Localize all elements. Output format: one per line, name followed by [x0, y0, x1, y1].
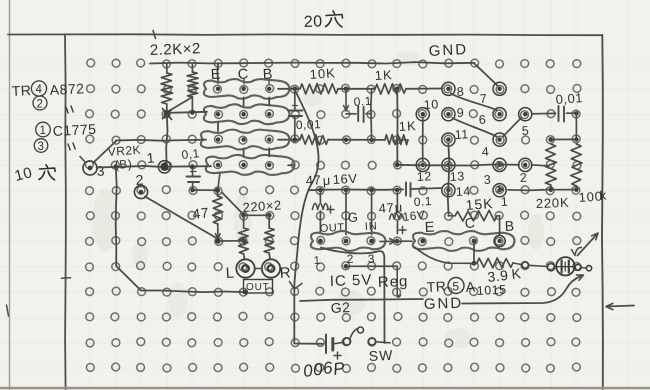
wire row6 pin1 to col19-20	[508, 189, 548, 192]
link col8 row4-row5	[268, 148, 270, 156]
plus sign 47u #2	[399, 227, 406, 234]
paper bottom edge line	[0, 387, 650, 389]
svg-text:3: 3	[96, 162, 105, 179]
IC pin 13 circled hole	[442, 158, 455, 171]
IC pin 12 circled hole	[416, 158, 429, 171]
junction col20 row4	[574, 137, 578, 141]
junction col6 row5b	[216, 163, 220, 167]
svg-text:1: 1	[500, 195, 508, 209]
svg-text:TR: TR	[11, 82, 31, 99]
junction col5 row5	[190, 164, 195, 169]
junction col14 row8	[420, 239, 425, 244]
svg-text:2.2K×2: 2.2K×2	[150, 40, 202, 59]
IC pin 3 circled hole	[493, 158, 506, 171]
link col6 row3-row4	[217, 123, 219, 131]
IC pin 5 circled hole	[519, 108, 532, 121]
svg-text:220×2: 220×2	[242, 197, 282, 215]
IC pin 11 circled hole	[442, 133, 455, 146]
svg-text:μ: μ	[322, 173, 331, 188]
capacitor 0.1 row6 plates	[405, 183, 407, 196]
wire blob row5 to col9	[288, 164, 294, 166]
svg-text:C1775: C1775	[52, 121, 97, 139]
arrow inside pin3	[497, 162, 503, 167]
check mark above jack	[572, 247, 582, 255]
svg-text:1K: 1K	[374, 67, 393, 83]
arrowhead GND to jack	[577, 275, 584, 280]
capacitor 0.1 col5 plates	[187, 176, 201, 178]
capacitor 0.1 row3 plates	[357, 107, 359, 122]
wire OUT box to row10	[245, 291, 248, 294]
wire col2 row5-row9	[116, 167, 117, 267]
wire 10K to 1K row2	[338, 88, 375, 90]
ditto mark 2	[68, 143, 75, 150]
VR pin2 circled hole	[134, 185, 147, 198]
junction col12 row8	[369, 239, 374, 244]
junction col9 row4	[293, 137, 298, 142]
perfboard hole grid 20x13	[85, 59, 580, 372]
end terminal circle	[586, 266, 591, 271]
svg-text:10: 10	[423, 97, 439, 112]
svg-text:12: 12	[416, 169, 432, 184]
board right edge line	[601, 35, 604, 390]
solder blob row8 regulator cols10-12	[311, 231, 386, 251]
junction col19 row4	[548, 137, 553, 142]
junction col6 row4b	[216, 137, 220, 141]
wire col13 row2-row5	[396, 89, 398, 165]
wire row1 to pin7 diagonal	[474, 63, 498, 85]
fork top of battery wire	[290, 282, 303, 290]
IC pin 7 circled hole	[493, 82, 506, 95]
junction col8 row7	[267, 213, 272, 218]
junction col7 row4b	[241, 137, 245, 141]
capacitor 0.01 col9 lead lower	[294, 117, 296, 139]
svg-text:3.9: 3.9	[487, 267, 510, 285]
wire col6 row6 diag to col7 row7	[222, 193, 242, 214]
svg-text:R: R	[279, 264, 291, 282]
capacitor 0.1 col5 lead lower	[192, 183, 194, 190]
svg-text:IC 5V: IC 5V	[330, 272, 373, 290]
capacitor 0.01 col9 lead upper	[294, 90, 296, 109]
junction col20 row6	[574, 187, 579, 192]
svg-text:0.1: 0.1	[413, 194, 432, 209]
junction col11 row9	[344, 264, 349, 269]
wire row1 drop to E column	[216, 64, 219, 81]
svg-text:5: 5	[521, 124, 529, 138]
capacitor 0.1 col5 lead upper	[191, 168, 193, 176]
wire regblob to col13 with arrow	[380, 240, 393, 242]
svg-text:SW: SW	[368, 347, 393, 364]
tick on left edge	[62, 277, 71, 279]
ditto mark	[66, 106, 73, 113]
wire battery minus vertical	[294, 288, 322, 344]
svg-text:1: 1	[314, 255, 321, 267]
wire into jack	[555, 266, 557, 268]
junction col13 row5	[395, 162, 400, 167]
junction col8 row2	[267, 87, 271, 91]
svg-text:3: 3	[483, 173, 491, 187]
wire col5 row6 to col6	[194, 189, 215, 191]
plus sign battery	[334, 352, 341, 359]
wire col2-col3 diagonal	[116, 266, 141, 291]
board left edge line	[64, 35, 67, 390]
junction col7 row8	[241, 238, 246, 243]
svg-text:11: 11	[454, 127, 469, 142]
capacitor 0.1 row3 leads	[346, 113, 356, 115]
capacitor 47u #2 col13	[396, 191, 398, 213]
svg-text:47: 47	[192, 204, 210, 222]
solder blob row5 cols6-8	[206, 155, 295, 175]
wire GND rail bottom right	[462, 276, 581, 304]
capacitor 0.01 right plates	[558, 106, 560, 121]
IC pin 6 circled hole	[493, 108, 506, 121]
wire C pin to row9	[473, 244, 475, 263]
svg-text:16V: 16V	[332, 171, 357, 187]
IC pin 4 circled hole	[493, 133, 506, 146]
junction col6 row8	[215, 238, 221, 244]
wire row5 VR3 to pin1	[97, 166, 161, 168]
junction col7 row5b	[241, 163, 245, 167]
capacitor 0.01 right leads	[532, 112, 556, 114]
wire row5 pin1 to blob	[169, 165, 211, 167]
svg-text:1015: 1015	[476, 282, 507, 298]
svg-text:TR: TR	[426, 278, 446, 295]
svg-text:4: 4	[481, 145, 489, 159]
solder blob row2 cols6-8	[204, 79, 290, 99]
switch pole hole col11	[343, 338, 350, 345]
wire col4 row3 to row5	[166, 114, 167, 164]
wire row6 rail	[309, 188, 404, 191]
svg-text:0,1: 0,1	[181, 146, 201, 162]
svg-text:1K: 1K	[398, 118, 417, 134]
wire blob row4 to col9	[278, 139, 300, 141]
arrow to upper right	[578, 234, 598, 256]
wire GND rail bottom left	[300, 299, 423, 301]
svg-text:B: B	[504, 218, 515, 234]
svg-text:G2: G2	[330, 299, 350, 316]
paper smudges	[92, 51, 544, 348]
resistor 10K row2	[300, 84, 338, 95]
svg-text:47: 47	[305, 172, 321, 188]
wire 1K to pin8	[406, 88, 442, 90]
wire pin2 to 220K	[532, 165, 550, 166]
wire power rail curve col9	[294, 90, 318, 288]
label C1775 with circled 1	[36, 121, 97, 139]
junction X col4 row3	[162, 108, 172, 120]
junction col9 row2	[293, 87, 298, 92]
junction col8 row4b	[267, 137, 271, 141]
wire pin9 to pin4 diagonal	[453, 118, 497, 137]
wire VR2 diagonal to col6 row8	[145, 197, 216, 238]
jack R	[262, 259, 280, 277]
svg-text:E: E	[424, 219, 435, 236]
resistor 47 col6	[217, 192, 219, 196]
battery 006P plates	[325, 335, 327, 354]
VR pin3 circled hole	[83, 161, 97, 175]
junction col2 row5	[114, 164, 118, 168]
junction col7 row2	[241, 87, 245, 91]
svg-text:0.1: 0.1	[353, 94, 372, 109]
wire col12 row6-row8	[371, 191, 373, 235]
junction col10 row8	[318, 239, 323, 244]
wire col18-col19 row9	[529, 265, 548, 266]
svg-text:Reg: Reg	[378, 273, 409, 291]
plus sign 47u #1	[327, 206, 334, 213]
wire blob row2 to col9	[278, 88, 300, 90]
switch throw hole col12	[368, 338, 375, 345]
junction col11 row8	[344, 239, 349, 244]
solder blob row4 cols6-8	[201, 130, 290, 150]
svg-text:6: 6	[478, 113, 486, 127]
IC pin 9 circled hole	[442, 108, 455, 121]
resistor 220 left col7	[243, 215, 245, 228]
wire row4 left col2-col6	[116, 140, 206, 141]
wire 15K to B pin	[499, 216, 501, 235]
IC pin 1 circled hole	[493, 184, 506, 197]
arrowhead 47 bottom	[215, 234, 220, 240]
small mark left margin	[7, 305, 9, 316]
wire 0.1 row6 to pin14	[412, 188, 443, 189]
wire col6 row6 up to blob row5	[218, 173, 220, 189]
junction col11 row6	[344, 188, 349, 193]
junction col16 row9	[472, 261, 477, 266]
jack L	[236, 259, 254, 277]
junction col19 row6	[549, 187, 554, 192]
junction col11 row4	[344, 138, 348, 142]
circled 2 annotation	[33, 96, 47, 111]
junction col11 row2	[344, 87, 349, 92]
junction col7 row3	[241, 112, 245, 116]
wire jack to col20	[574, 266, 577, 268]
svg-text:4: 4	[36, 84, 43, 96]
svg-text:10K: 10K	[309, 65, 336, 82]
wire col6-col7 row8	[220, 240, 244, 242]
wire col15 row4-row7	[448, 144, 450, 216]
svg-text:(B): (B)	[114, 157, 132, 172]
wire regulator to switch vertical	[321, 248, 385, 344]
resistor 15K row7	[448, 215, 455, 217]
junction col13 row2	[395, 87, 400, 92]
solder blob row3 cols6-8	[204, 104, 290, 124]
wire L-R jacks	[255, 268, 262, 270]
resistor 100K col20	[571, 144, 582, 186]
output jack	[556, 257, 574, 275]
wire col13 to E blob row8	[397, 240, 412, 242]
pen tick on top edge	[153, 31, 156, 39]
link col7 row4-row5	[243, 148, 245, 156]
wire GND rail row1	[150, 62, 474, 63]
svg-text:k: k	[599, 188, 607, 203]
svg-text:L: L	[225, 265, 235, 282]
link col7 row2-row3	[243, 98, 245, 106]
hole col19 row9 contact	[547, 264, 554, 271]
resistor 2.2K #1 vertical col4	[166, 64, 168, 74]
resistor row4 unlabelled	[300, 135, 328, 146]
arrow inside pin1	[497, 187, 503, 192]
wire row10 col3-col7	[141, 291, 246, 293]
switch lever arc	[350, 329, 358, 339]
svg-text:OUT: OUT	[246, 282, 270, 293]
wire 2.2K#2 diagonal to col4 junction	[168, 98, 192, 112]
resistor 1K row4	[385, 135, 408, 145]
junction col6 row2	[216, 87, 220, 91]
svg-text:1: 1	[40, 125, 47, 137]
svg-text:2: 2	[519, 171, 527, 185]
svg-text:A: A	[465, 278, 476, 295]
svg-text:13: 13	[449, 169, 465, 184]
switch lever contact	[358, 327, 364, 333]
junction col10 row6	[318, 188, 323, 193]
svg-text:G: G	[347, 209, 358, 225]
wire VR3 to row4 diagonal	[94, 142, 116, 163]
resistor 3.9K row9	[474, 262, 477, 264]
svg-text:3: 3	[38, 141, 45, 153]
wire col20 row3-row4	[575, 114, 577, 139]
junction col7 row7	[241, 213, 246, 218]
circled 3 annotation	[34, 139, 48, 153]
hole col18 row9 contact	[522, 262, 528, 268]
junction col6 row3	[216, 112, 220, 116]
wire col12 row2-row4	[370, 89, 373, 140]
wire col11 row6-row8	[345, 191, 347, 235]
junction col20 row3	[574, 111, 579, 116]
wire row3 col4-col6	[169, 112, 207, 113]
solder blob row8 TR5 cols14-17	[413, 231, 515, 251]
VR pin1 junction blob	[160, 163, 168, 171]
hole col20 row9 contact	[575, 264, 581, 270]
arrowhead col11 row3	[344, 106, 349, 112]
board top edge line	[8, 33, 602, 36]
svg-text:A872: A872	[49, 80, 84, 98]
wire row4 col19-col20	[551, 138, 577, 140]
wire col14 row3-row5	[422, 118, 424, 161]
wire col11 row2 to row3	[345, 90, 347, 108]
svg-text:GND: GND	[424, 295, 464, 313]
junction col6 row6	[215, 188, 220, 193]
svg-text:20: 20	[304, 13, 323, 31]
notebook margin line	[9, 0, 11, 390]
label TR4 A872	[11, 80, 84, 99]
IC pin 2 circled hole	[519, 158, 532, 171]
svg-text:K: K	[511, 265, 523, 282]
svg-text:2: 2	[37, 99, 44, 111]
wire battery to sw hole	[334, 343, 343, 344]
OUT box	[244, 280, 273, 294]
wire col13 row9 drop	[397, 266, 400, 297]
junction col12 row6	[369, 188, 374, 193]
wire pin8 to pin6 diagonal	[451, 94, 497, 111]
capacitor 0.01 col9 plates	[288, 110, 303, 112]
pin B circled hole row8	[494, 235, 505, 246]
arrow pointing left outside	[607, 306, 634, 307]
svg-text:5: 5	[452, 280, 459, 294]
resistor 1K row2	[375, 84, 406, 95]
junction col13 row6	[395, 188, 400, 193]
IC pin 8 circled hole	[442, 82, 455, 95]
wire row9 col11-col13	[344, 265, 397, 267]
IC pin 10 circled hole	[416, 108, 429, 121]
junction col5 row3	[190, 110, 194, 114]
wire row4 col10-col12	[328, 139, 385, 141]
wire row7 col7-col8	[244, 214, 270, 216]
svg-text:0,01: 0,01	[555, 90, 583, 107]
junction col7 row10	[243, 290, 248, 295]
svg-text:16V: 16V	[402, 208, 426, 224]
IC pin 14 circled hole	[442, 184, 455, 197]
resistor 220K col19	[545, 144, 556, 185]
junction col16 row8	[472, 239, 477, 244]
svg-text:1: 1	[146, 149, 155, 166]
resistor 2.2K #2 vertical col5	[191, 64, 193, 73]
junction col13 row8	[395, 239, 400, 244]
junction col12 row4	[369, 138, 373, 142]
capacitor 47u #1 col10	[319, 191, 321, 202]
wire col20 to end circle	[581, 267, 586, 269]
wire E blob diag to row9	[415, 247, 472, 263]
resistor 220 right col8	[268, 215, 270, 228]
svg-text:GND: GND	[428, 41, 468, 60]
junction col5 row6	[190, 188, 195, 193]
junction col8 row3	[267, 112, 271, 116]
svg-text:9: 9	[456, 106, 464, 120]
tail at VR pin3	[80, 157, 86, 163]
wire row5 col13-col18	[397, 164, 519, 165]
svg-text:C: C	[464, 214, 475, 231]
junction col8 row5b	[267, 163, 271, 167]
wire 1K row4 to col13	[397, 139, 408, 141]
wire switch to vertical	[376, 342, 390, 343]
wire pin4 to pin5 diagonal	[503, 118, 522, 137]
svg-text:220K: 220K	[536, 195, 570, 211]
link col8 row2-row3	[268, 98, 270, 106]
